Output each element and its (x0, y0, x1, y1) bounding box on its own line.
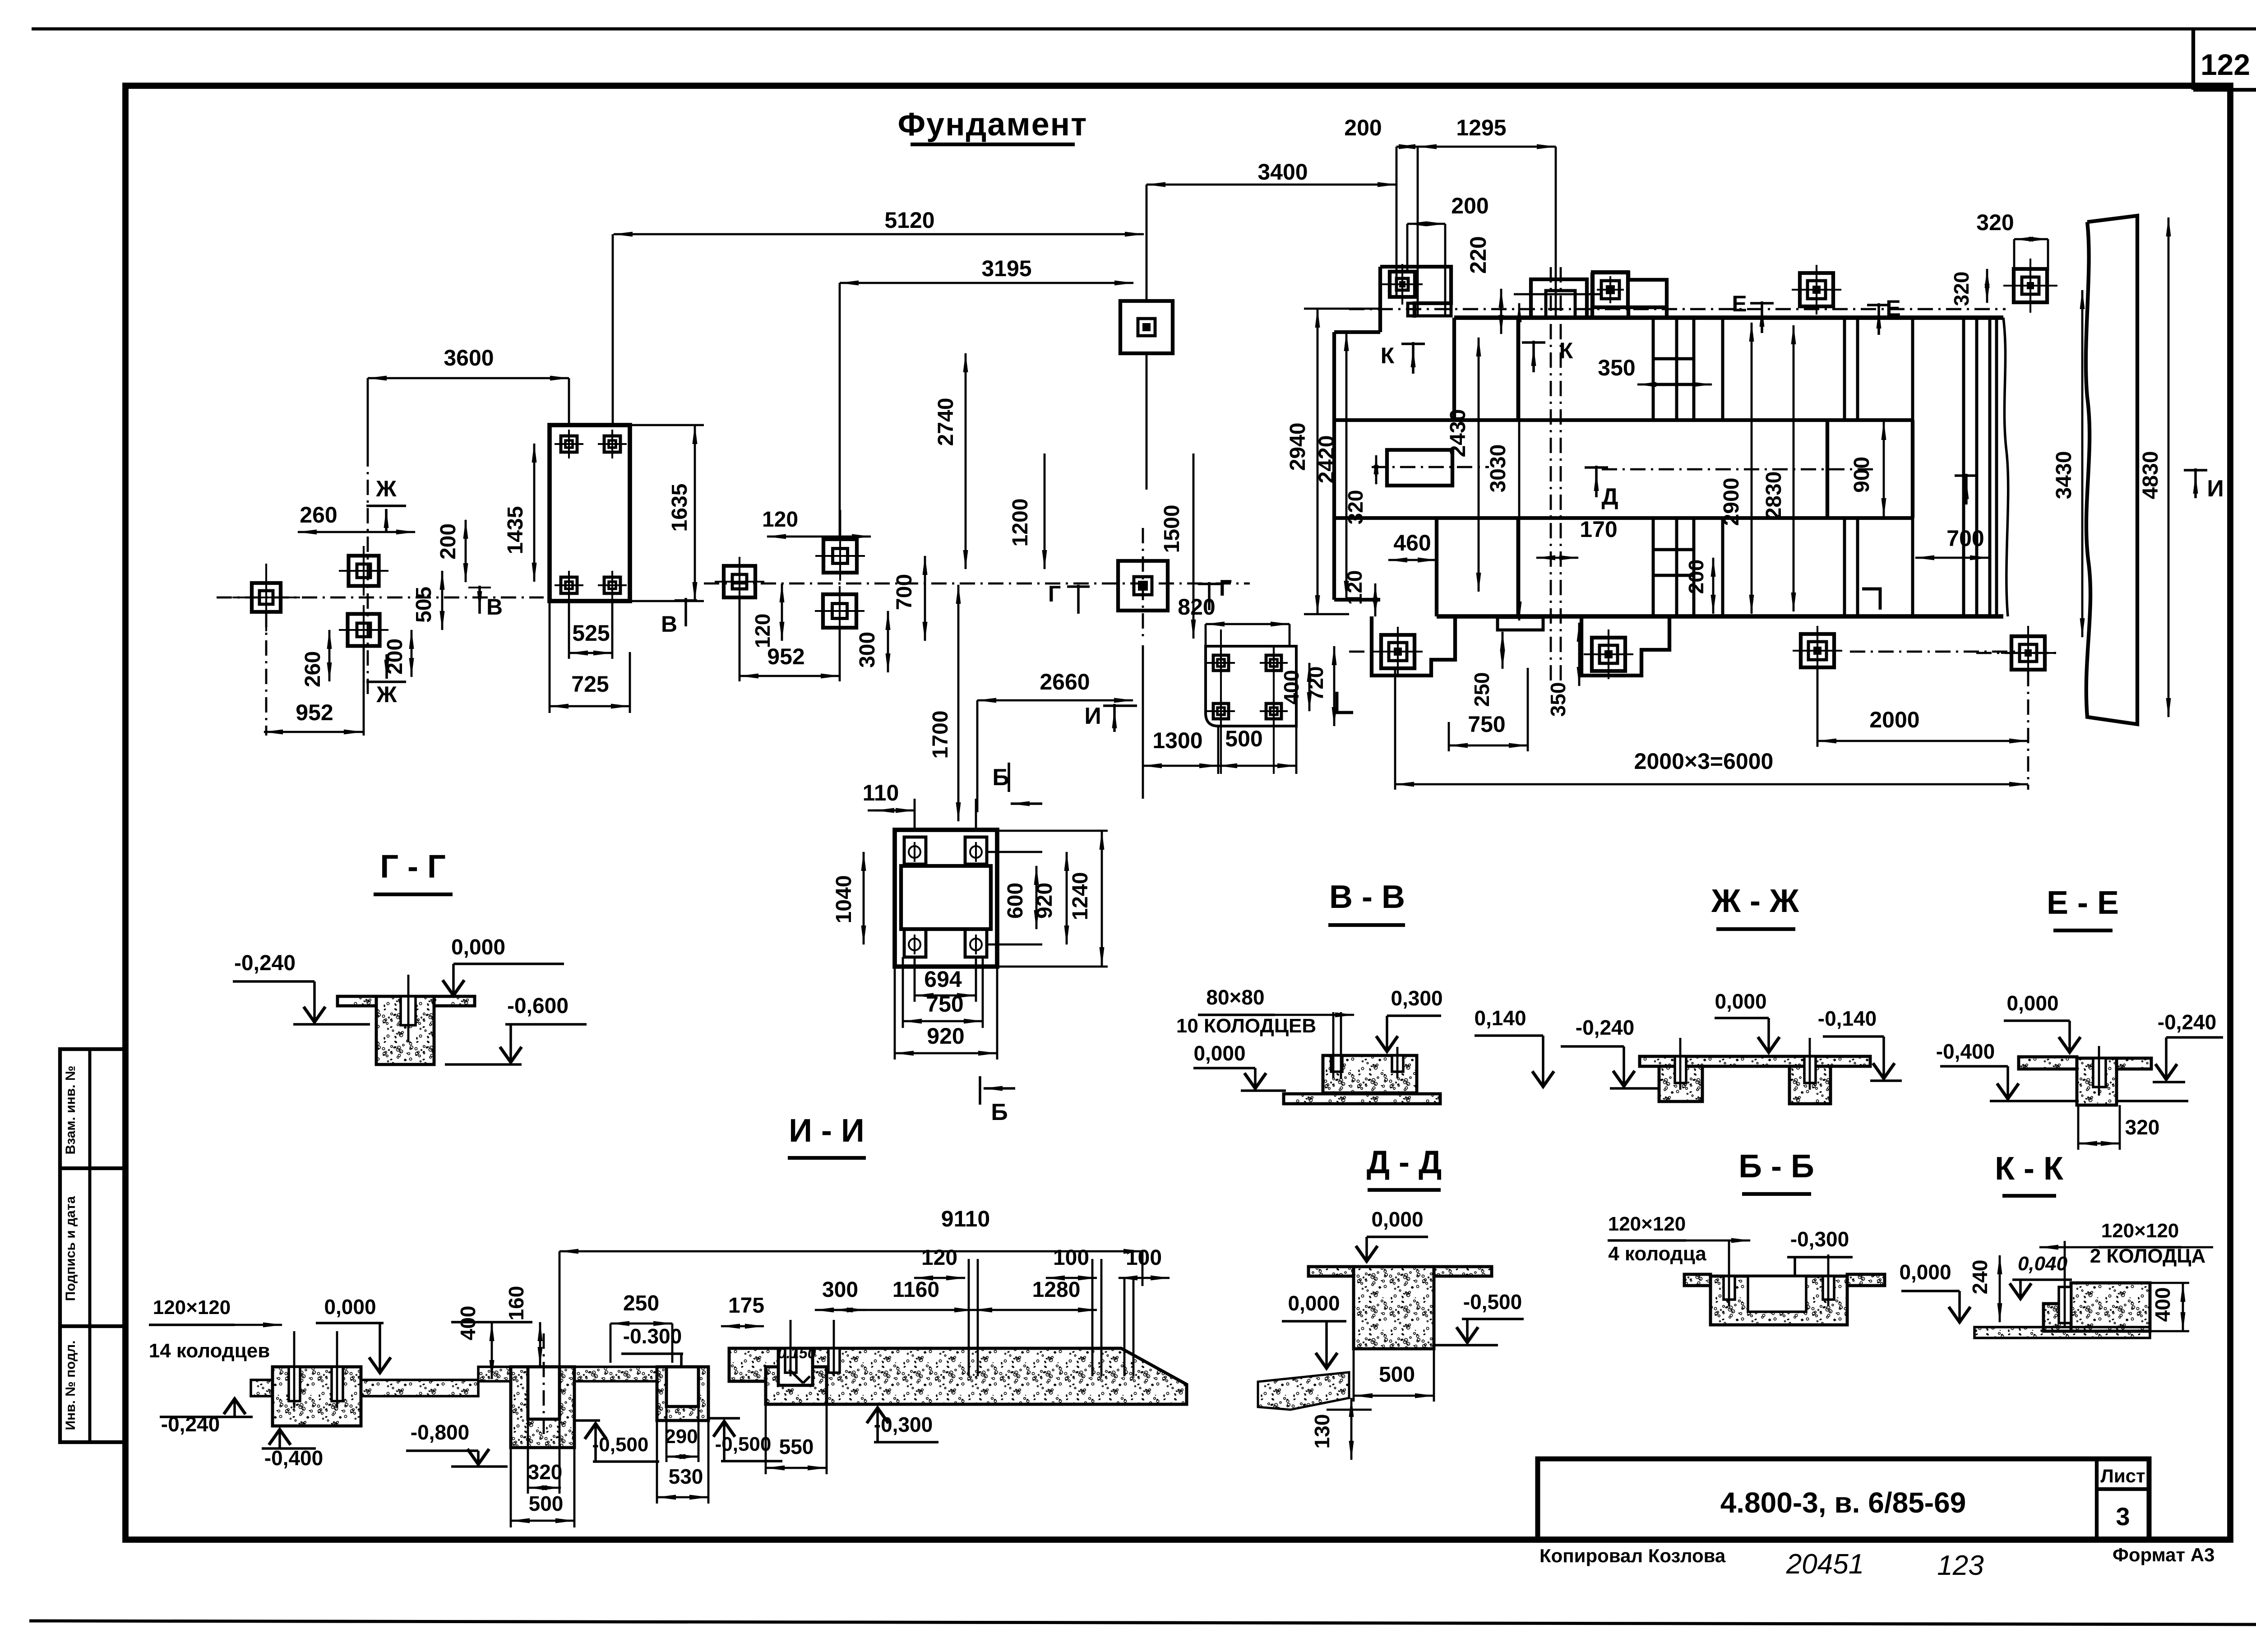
svg-text:Формат А3: Формат А3 (2113, 1544, 2214, 1565)
svg-text:3195: 3195 (981, 256, 1031, 281)
svg-text:-0,240: -0,240 (2158, 1010, 2216, 1034)
svg-text:600: 600 (1003, 883, 1027, 919)
svg-text:10 КОЛОДЦЕВ: 10 КОЛОДЦЕВ (1176, 1015, 1316, 1037)
svg-text:120: 120 (1343, 570, 1366, 605)
svg-text:200: 200 (1344, 115, 1382, 140)
svg-text:0,140: 0,140 (1474, 1006, 1526, 1030)
svg-text:2740: 2740 (934, 398, 958, 446)
svg-text:1635: 1635 (668, 484, 692, 532)
svg-text:0.150: 0.150 (777, 1345, 816, 1362)
svg-text:0,000: 0,000 (1715, 990, 1766, 1013)
svg-text:Фундамент: Фундамент (898, 106, 1088, 143)
svg-text:175: 175 (728, 1294, 764, 1318)
svg-text:350: 350 (1546, 682, 1570, 717)
svg-text:В: В (661, 611, 677, 637)
svg-text:4.800-3, в. 6/85-69: 4.800-3, в. 6/85-69 (1720, 1486, 1966, 1519)
svg-text:2660: 2660 (1040, 669, 1090, 694)
svg-text:1200: 1200 (1008, 499, 1032, 547)
svg-text:820: 820 (1178, 594, 1215, 620)
svg-text:Д: Д (1601, 484, 1618, 510)
svg-text:Взам. инв. №: Взам. инв. № (63, 1066, 78, 1155)
svg-text:1240: 1240 (1068, 872, 1092, 921)
svg-text:460: 460 (1393, 530, 1431, 555)
svg-text:-0,400: -0,400 (264, 1446, 323, 1470)
svg-text:320: 320 (2125, 1115, 2160, 1139)
svg-text:-0,500: -0,500 (1463, 1290, 1522, 1314)
svg-text:530: 530 (669, 1465, 703, 1488)
svg-text:80×80: 80×80 (1206, 986, 1264, 1009)
svg-text:725: 725 (571, 671, 609, 697)
svg-text:720: 720 (1304, 666, 1327, 701)
svg-text:Е - Е: Е - Е (2047, 885, 2119, 921)
svg-text:Инв. № подл.: Инв. № подл. (63, 1340, 78, 1430)
svg-text:0,300: 0,300 (1391, 986, 1442, 1010)
svg-text:В: В (486, 594, 503, 620)
svg-text:260: 260 (300, 502, 337, 528)
svg-text:2430: 2430 (1446, 409, 1470, 458)
svg-text:В - В: В - В (1329, 879, 1405, 915)
svg-text:260: 260 (301, 651, 325, 687)
svg-text:700: 700 (1946, 526, 1984, 551)
svg-text:290: 290 (665, 1425, 698, 1448)
svg-text:100: 100 (1053, 1246, 1089, 1270)
svg-text:120: 120 (751, 614, 774, 648)
svg-text:К - К: К - К (1995, 1151, 2064, 1187)
svg-text:Б: Б (991, 1099, 1008, 1125)
svg-text:Е: Е (1732, 291, 1747, 316)
svg-text:120×120: 120×120 (1608, 1213, 1686, 1235)
svg-text:0,000: 0,000 (2006, 991, 2058, 1015)
svg-text:Г: Г (1048, 581, 1061, 606)
svg-text:1295: 1295 (1456, 115, 1506, 140)
svg-text:0,000: 0,000 (1371, 1208, 1423, 1231)
svg-text:3600: 3600 (444, 345, 494, 370)
svg-text:130: 130 (1310, 1414, 1334, 1449)
svg-text:160: 160 (504, 1286, 528, 1321)
svg-text:200: 200 (1684, 560, 1708, 594)
svg-text:И: И (2207, 476, 2224, 502)
svg-text:Б: Б (992, 764, 1009, 791)
svg-text:320: 320 (1976, 210, 2014, 235)
svg-text:1500: 1500 (1160, 505, 1184, 553)
svg-text:900: 900 (1850, 457, 1874, 493)
svg-text:320: 320 (1950, 272, 1973, 306)
svg-text:500: 500 (529, 1492, 564, 1515)
svg-text:-0,240: -0,240 (1576, 1016, 1634, 1039)
svg-text:550: 550 (779, 1435, 814, 1458)
svg-text:320: 320 (528, 1460, 563, 1484)
svg-text:120×120: 120×120 (153, 1296, 231, 1319)
svg-text:1160: 1160 (892, 1278, 939, 1302)
svg-text:200: 200 (1451, 193, 1489, 218)
svg-text:Ж: Ж (375, 476, 397, 501)
svg-text:500: 500 (1379, 1363, 1415, 1387)
svg-text:-0,400: -0,400 (1936, 1040, 1995, 1063)
svg-text:1280: 1280 (1032, 1278, 1081, 1302)
svg-text:123: 123 (1937, 1550, 1983, 1581)
svg-text:120: 120 (921, 1246, 957, 1270)
svg-text:300: 300 (822, 1278, 858, 1302)
svg-text:-0,240: -0,240 (234, 951, 296, 975)
svg-text:3430: 3430 (2052, 451, 2076, 500)
svg-text:9110: 9110 (941, 1206, 990, 1231)
svg-text:Копировал Козлова: Копировал Козлова (1539, 1545, 1726, 1566)
svg-text:400: 400 (2151, 1287, 2174, 1322)
svg-text:505: 505 (412, 587, 436, 623)
svg-text:750: 750 (1468, 712, 1505, 737)
svg-text:5120: 5120 (884, 208, 934, 233)
svg-text:0,000: 0,000 (1193, 1041, 1245, 1065)
svg-text:1435: 1435 (504, 506, 527, 555)
svg-text:Е: Е (1886, 296, 1900, 321)
svg-text:120×120: 120×120 (2101, 1220, 2179, 1242)
svg-text:К: К (1381, 343, 1395, 368)
svg-text:350: 350 (1598, 355, 1635, 380)
svg-text:14 колодцев: 14 колодцев (149, 1340, 270, 1362)
svg-text:2 КОЛОДЦА: 2 КОЛОДЦА (2090, 1245, 2205, 1267)
svg-text:170: 170 (1580, 517, 1617, 542)
svg-text:4 колодца: 4 колодца (1608, 1243, 1706, 1265)
svg-text:1040: 1040 (832, 875, 856, 924)
svg-text:200: 200 (436, 523, 460, 560)
svg-text:0,040: 0,040 (2018, 1253, 2068, 1275)
svg-text:И - И: И - И (789, 1113, 864, 1149)
svg-text:3400: 3400 (1257, 159, 1308, 185)
svg-text:3: 3 (2116, 1502, 2130, 1531)
svg-text:525: 525 (572, 620, 610, 646)
svg-text:2940: 2940 (1286, 423, 1310, 471)
svg-text:-0,800: -0,800 (411, 1421, 469, 1444)
svg-text:120: 120 (762, 508, 798, 532)
svg-text:1300: 1300 (1152, 728, 1202, 753)
svg-text:Ж - Ж: Ж - Ж (1711, 883, 1799, 919)
svg-text:3030: 3030 (1486, 444, 1510, 493)
svg-text:694: 694 (924, 967, 962, 992)
svg-text:Подпись и дата: Подпись и дата (63, 1196, 78, 1301)
svg-text:100: 100 (1126, 1246, 1162, 1270)
svg-text:320: 320 (1344, 490, 1367, 525)
svg-text:Г - Г: Г - Г (380, 849, 446, 885)
svg-text:1700: 1700 (929, 711, 952, 759)
svg-text:4830: 4830 (2139, 451, 2163, 500)
svg-text:250: 250 (1470, 672, 1493, 707)
svg-text:-0,140: -0,140 (1818, 1007, 1877, 1030)
svg-text:2000: 2000 (1869, 707, 1919, 732)
svg-text:110: 110 (863, 780, 899, 805)
svg-text:2900: 2900 (1720, 478, 1743, 526)
svg-text:122: 122 (2201, 48, 2250, 81)
svg-text:Ж: Ж (376, 682, 397, 707)
svg-text:И: И (1084, 703, 1101, 729)
svg-text:Лист: Лист (2100, 1465, 2145, 1486)
svg-text:-0,500: -0,500 (592, 1434, 649, 1456)
svg-text:0,000: 0,000 (1288, 1291, 1340, 1315)
svg-text:0,000: 0,000 (1899, 1260, 1951, 1284)
svg-text:300: 300 (855, 632, 879, 668)
svg-text:-0.300: -0.300 (623, 1324, 682, 1348)
svg-text:250: 250 (623, 1291, 659, 1315)
svg-text:2000×3=6000: 2000×3=6000 (1634, 749, 1774, 774)
svg-text:952: 952 (296, 700, 333, 725)
svg-text:0,000: 0,000 (324, 1295, 376, 1319)
svg-text:2420: 2420 (1315, 435, 1339, 484)
svg-text:20451: 20451 (1786, 1549, 1864, 1580)
svg-text:Д - Д: Д - Д (1367, 1144, 1442, 1180)
svg-text:К: К (1559, 338, 1573, 363)
svg-text:400: 400 (1280, 670, 1303, 705)
svg-text:Г: Г (1219, 575, 1232, 601)
svg-text:-0,600: -0,600 (507, 994, 569, 1018)
svg-text:920: 920 (927, 1023, 964, 1049)
svg-text:920: 920 (1033, 883, 1057, 919)
svg-text:2830: 2830 (1762, 472, 1786, 520)
svg-text:-0,300: -0,300 (1790, 1227, 1849, 1251)
svg-text:220: 220 (1465, 236, 1491, 273)
svg-text:500: 500 (1225, 726, 1262, 751)
svg-text:750: 750 (926, 991, 963, 1017)
svg-text:Б - Б: Б - Б (1738, 1148, 1814, 1185)
svg-text:700: 700 (892, 574, 916, 610)
svg-text:952: 952 (767, 644, 804, 669)
svg-text:240: 240 (1968, 1260, 1992, 1295)
svg-text:0,000: 0,000 (451, 935, 505, 959)
